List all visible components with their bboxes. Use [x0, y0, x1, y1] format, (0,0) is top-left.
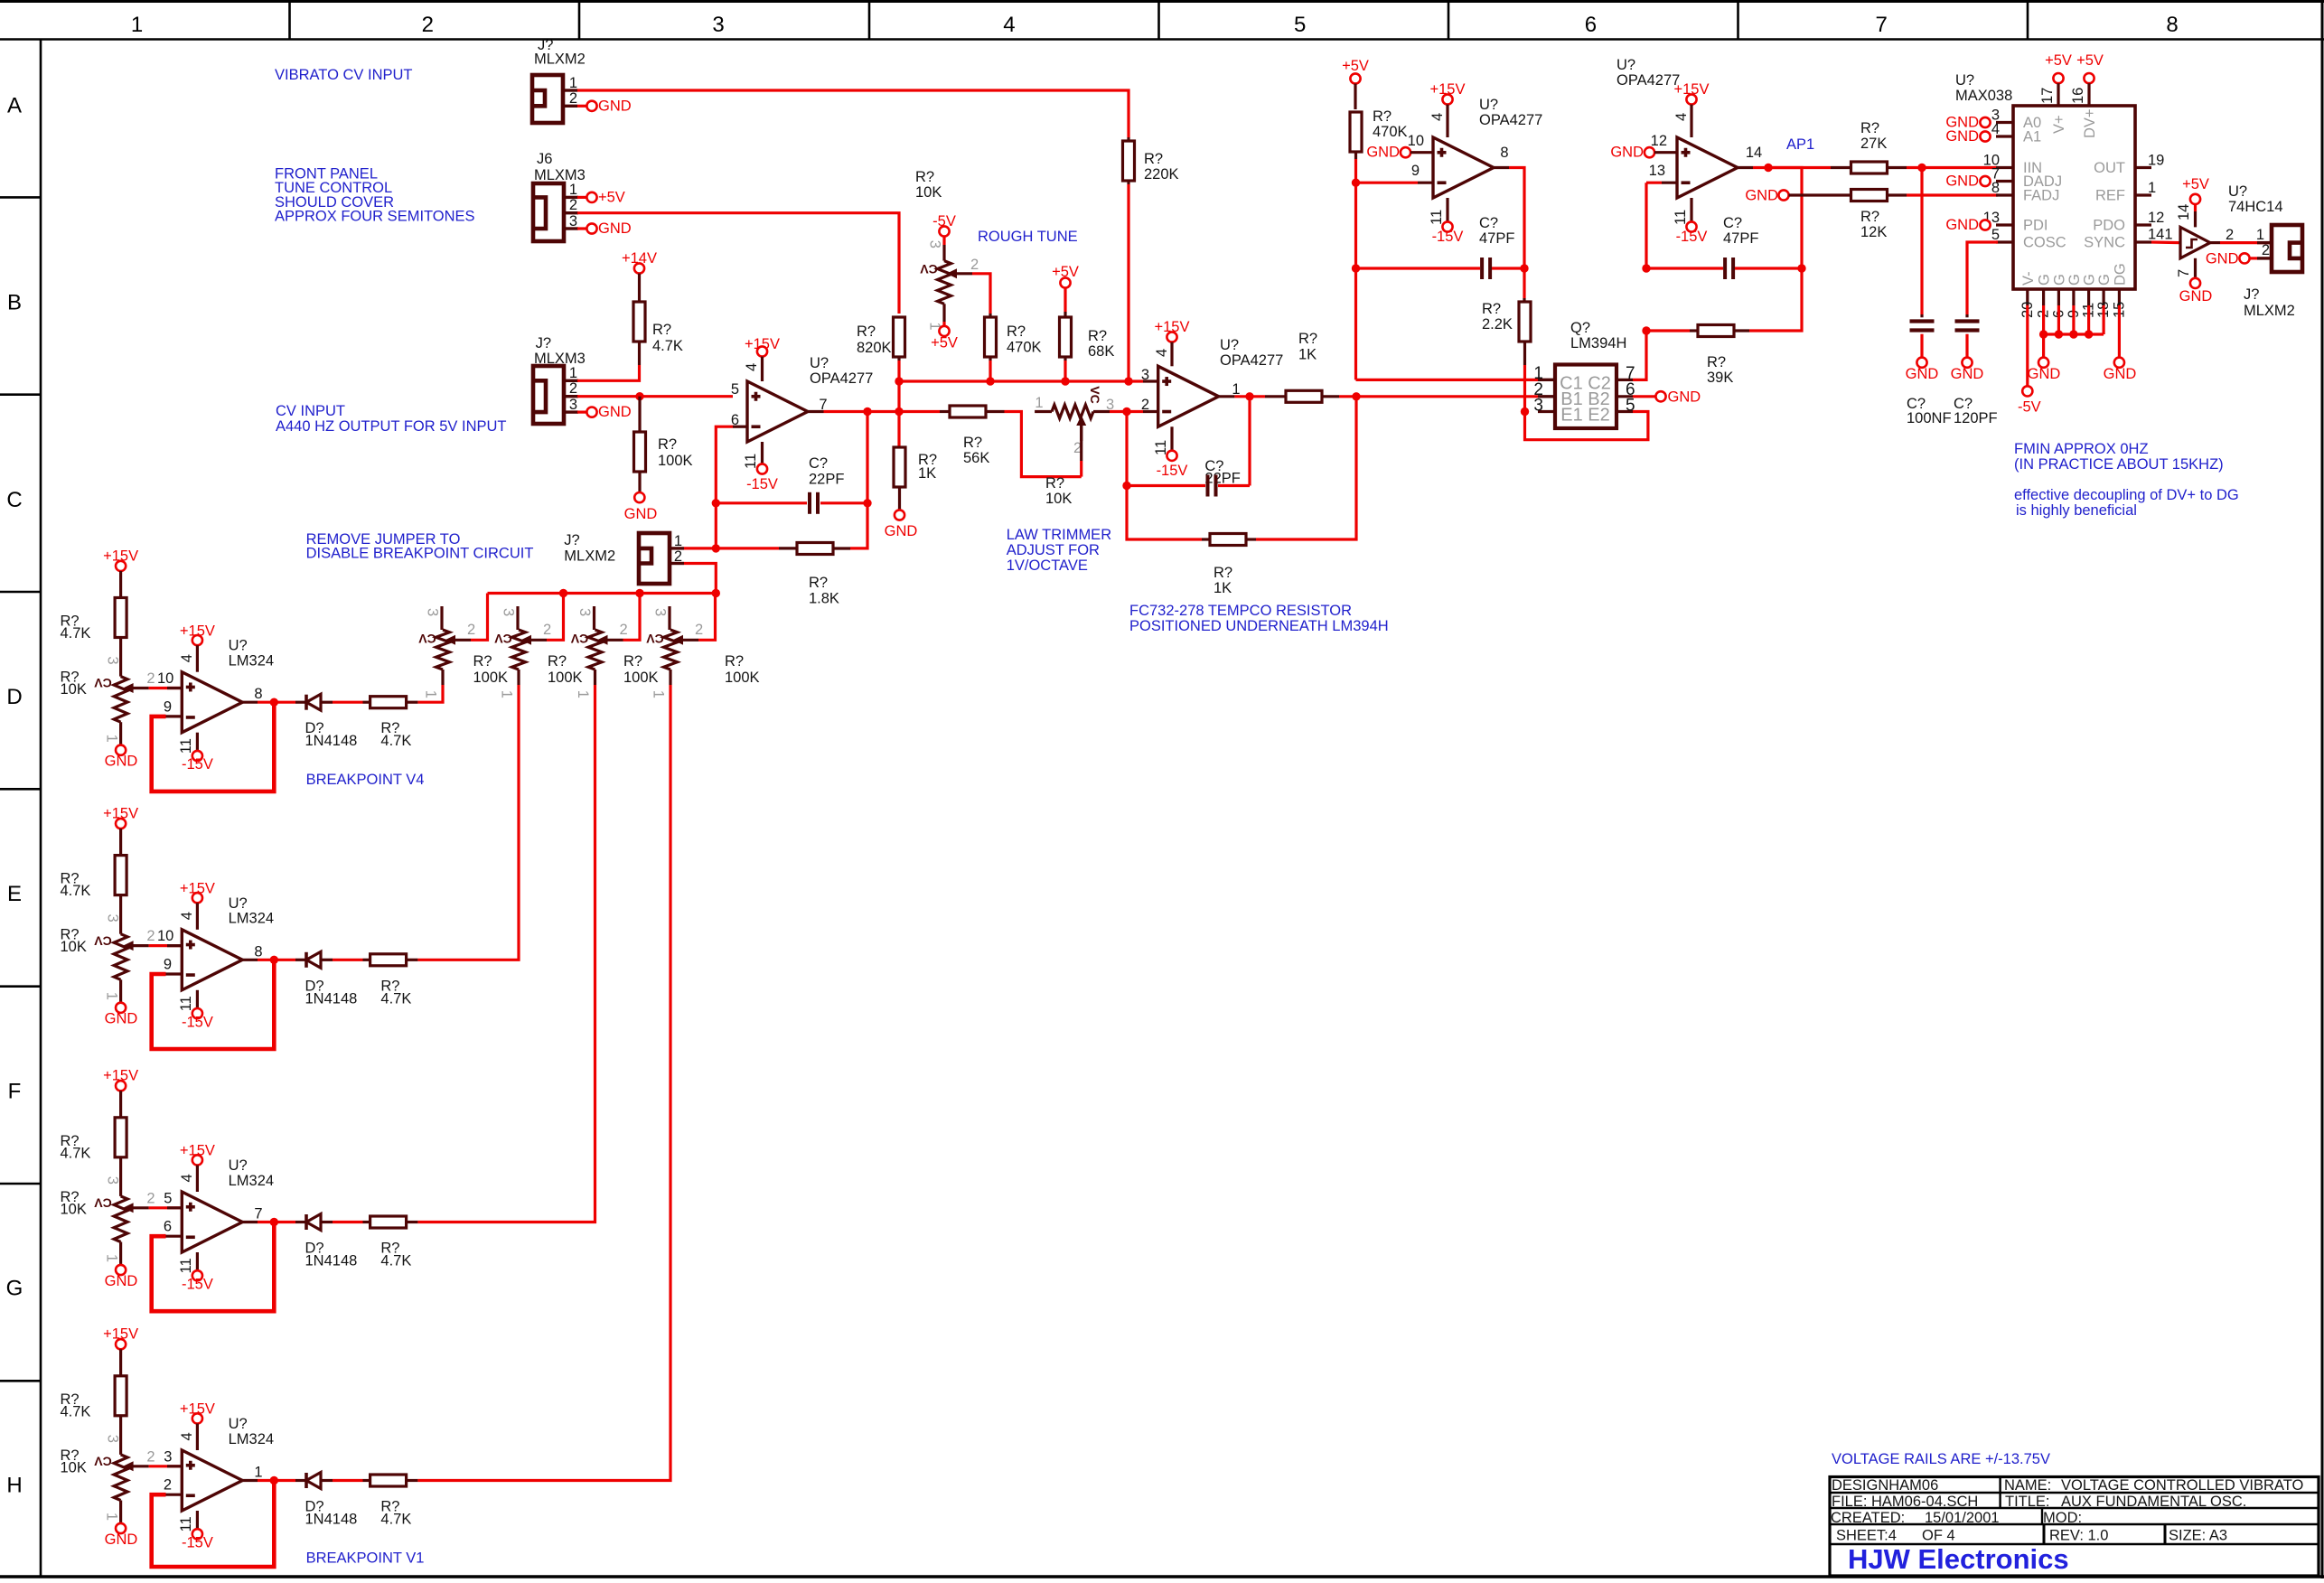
svg-text:1: 1: [674, 533, 682, 549]
svg-text:4: 4: [179, 654, 195, 662]
svg-text:2: 2: [2226, 227, 2234, 243]
svg-text:11: 11: [743, 454, 759, 469]
svg-text:2: 2: [146, 1448, 155, 1465]
svg-text:8: 8: [1991, 180, 2000, 196]
svg-text:9: 9: [164, 698, 172, 715]
svg-text:U?: U?: [229, 1157, 248, 1174]
svg-text:3: 3: [576, 608, 593, 616]
op output wire block 1: [242, 701, 258, 704]
svg-text:1: 1: [2148, 180, 2156, 196]
svg-text:74HC14: 74HC14: [2228, 199, 2283, 215]
svg-text:GND: GND: [2179, 288, 2213, 304]
svg-text:R?: R?: [623, 653, 642, 670]
svg-text:-5V: -5V: [2018, 399, 2041, 416]
svg-text:4.7K: 4.7K: [652, 338, 683, 354]
op-amp U? LM324 block 1: [182, 672, 242, 733]
svg-text:27K: 27K: [1860, 136, 1887, 152]
svg-text:2: 2: [1141, 397, 1149, 413]
svg-text:A1: A1: [2023, 129, 2041, 145]
ground J6 pin3: [577, 227, 586, 229]
feedback loop block 1: [152, 702, 275, 791]
svg-text:1K: 1K: [1298, 347, 1317, 363]
svg-text:+5V: +5V: [2076, 52, 2104, 69]
svg-text:17: 17: [2039, 88, 2056, 104]
svg-text:AP1: AP1: [1786, 136, 1814, 153]
svg-text:GND: GND: [1945, 173, 1979, 190]
svg-text:-15V: -15V: [182, 1277, 213, 1293]
svg-text:56K: 56K: [963, 450, 989, 466]
svg-text:OPA4277: OPA4277: [1479, 112, 1542, 128]
svg-text:8: 8: [1500, 145, 1508, 161]
svg-text:7: 7: [1876, 13, 1888, 37]
svg-text:GND: GND: [1745, 188, 1778, 204]
op-amp U? LM324 block 4: [182, 1450, 242, 1511]
svg-text:R?: R?: [652, 322, 671, 338]
svg-text:CV: CV: [94, 1196, 112, 1211]
svg-text:1: 1: [104, 1513, 120, 1521]
svg-text:LAW TRIMMER: LAW TRIMMER: [1007, 527, 1112, 543]
svg-text:FADJ: FADJ: [2023, 188, 2059, 204]
wire op3 output to R1K: [1219, 395, 1235, 398]
ground pot block 3: [119, 1242, 122, 1265]
wire pot 1 bottom: [441, 670, 444, 685]
svg-text:SYNC: SYNC: [2084, 235, 2125, 251]
svg-text:CV INPUT: CV INPUT: [276, 403, 345, 419]
svg-text:VIBRATO CV INPUT: VIBRATO CV INPUT: [275, 67, 413, 83]
wire op1 inverting input loop: [733, 426, 747, 428]
svg-text:REF: REF: [2095, 188, 2125, 204]
potentiometer R? 10K block 3: [114, 1196, 127, 1242]
svg-text:13: 13: [1649, 163, 1665, 179]
breakpoint wiper bus: [488, 592, 717, 595]
svg-text:11: 11: [1153, 440, 1169, 455]
svg-text:APPROX FOUR SEMITONES: APPROX FOUR SEMITONES: [275, 209, 475, 225]
svg-text:2: 2: [146, 1190, 155, 1206]
svg-text:2: 2: [164, 1477, 172, 1494]
svg-text:G: G: [2082, 274, 2098, 286]
svg-text:2: 2: [569, 197, 577, 213]
svg-text:R?: R?: [1007, 323, 1026, 340]
svg-text:2: 2: [970, 257, 979, 273]
svg-text:1N4148: 1N4148: [305, 1253, 358, 1269]
svg-text:R?: R?: [809, 575, 828, 591]
svg-text:2.2K: 2.2K: [1482, 316, 1513, 333]
svg-text:SIZE: A3: SIZE: A3: [2169, 1528, 2227, 1544]
wire J6 pin2 to R820K: [577, 213, 899, 314]
svg-text:-15V: -15V: [182, 1014, 213, 1030]
wire cap right to output: [1768, 168, 1802, 269]
power -15V op block 4: [196, 1511, 199, 1529]
svg-text:MOD:: MOD:: [2043, 1510, 2082, 1526]
wire cap to output node: [866, 412, 868, 503]
wire LM394H emitters loop: [1525, 412, 1648, 440]
svg-text:2: 2: [543, 622, 551, 638]
svg-text:DG: DG: [2112, 263, 2128, 286]
svg-text:ADJUST FOR: ADJUST FOR: [1007, 542, 1100, 558]
svg-text:3: 3: [1141, 367, 1149, 383]
resistor R? 4.7K output block 4: [333, 1479, 363, 1482]
svg-text:DESIGNHAM06: DESIGNHAM06: [1832, 1477, 1938, 1494]
svg-text:9: 9: [164, 957, 172, 973]
op-amp U? LM324 block 3: [182, 1192, 242, 1252]
svg-text:U?: U?: [810, 355, 829, 371]
svg-text:820K: 820K: [857, 340, 892, 356]
ground pot block 1: [119, 722, 122, 745]
MAX pin 3 A0: [1996, 121, 2013, 124]
svg-text:OPA4277: OPA4277: [1616, 72, 1680, 89]
svg-text:R?: R?: [1088, 328, 1107, 344]
svg-text:CV: CV: [920, 262, 938, 276]
svg-text:1: 1: [499, 690, 515, 698]
svg-text:is highly beneficial: is highly beneficial: [2016, 502, 2137, 519]
op-amp U? LM324 block 2: [182, 930, 242, 990]
svg-text:10K: 10K: [61, 1201, 87, 1217]
resistor R? 12K: [1851, 190, 1888, 201]
MAX pin 1 REF: [2135, 193, 2151, 196]
svg-text:R?: R?: [1482, 301, 1501, 317]
svg-text:CV: CV: [94, 933, 112, 948]
op-amp U? OPA4277 integrator: [1433, 137, 1494, 198]
ground R100K: [634, 492, 644, 502]
svg-text:7: 7: [2176, 269, 2192, 277]
svg-text:+5V: +5V: [2182, 176, 2209, 192]
svg-text:3: 3: [105, 914, 121, 923]
svg-text:LM324: LM324: [229, 911, 274, 927]
diode D? 1N4148 block 4: [295, 1479, 306, 1482]
feedback loop block 2: [152, 960, 275, 1049]
svg-text:GND: GND: [598, 220, 632, 237]
svg-text:8: 8: [254, 943, 262, 960]
law trimmer wiper: [1076, 416, 1086, 426]
svg-text:R?: R?: [1214, 565, 1232, 581]
svg-text:SHEET:4: SHEET:4: [1836, 1528, 1897, 1544]
svg-text:11: 11: [1673, 210, 1689, 225]
svg-text:100K: 100K: [548, 670, 583, 686]
MAX pin 12 PDO: [2135, 223, 2151, 226]
svg-text:-15V: -15V: [1432, 229, 1464, 245]
MAX pin 8 FADJ: [1996, 193, 2013, 196]
svg-text:3: 3: [927, 240, 943, 248]
svg-text:VOLTAGE RAILS ARE +/-13.75V: VOLTAGE RAILS ARE +/-13.75V: [1832, 1451, 2050, 1467]
svg-text:GND: GND: [2104, 366, 2137, 382]
svg-text:4: 4: [1991, 121, 2000, 137]
svg-text:C?: C?: [1723, 215, 1742, 231]
wire jumper pin2 to breakpoint bus: [684, 564, 716, 594]
svg-text:1K: 1K: [918, 465, 936, 482]
svg-text:11: 11: [1429, 210, 1445, 225]
wire jumper pin1 net: [684, 547, 779, 549]
potentiometer R? 100K breakpoint 2: [516, 606, 519, 630]
power -5V MAX V-: [2026, 305, 2029, 386]
resistor R? 1K feedback: [1127, 486, 1202, 540]
svg-text:PDI: PDI: [2023, 218, 2048, 234]
svg-text:LM324: LM324: [229, 1173, 274, 1189]
wire op2 pin9: [1356, 182, 1419, 184]
svg-text:1N4148: 1N4148: [305, 990, 358, 1007]
svg-text:-15V: -15V: [1157, 463, 1188, 479]
svg-text:U?: U?: [229, 895, 248, 912]
svg-text:U?: U?: [2228, 183, 2247, 200]
svg-text:(IN PRACTICE ABOUT 15KHZ): (IN PRACTICE ABOUT 15KHZ): [2014, 456, 2224, 473]
potentiometer R? 10K rough tune: [942, 237, 945, 245]
MAX pin 13 PDI: [1996, 223, 2013, 226]
svg-text:100NF: 100NF: [1907, 410, 1952, 426]
wiper wire pot 4: [673, 635, 684, 645]
svg-text:12K: 12K: [1860, 224, 1887, 240]
MAX bottom pins: [2026, 289, 2029, 305]
svg-text:R?: R?: [725, 653, 744, 670]
svg-text:1: 1: [569, 365, 577, 381]
resistor R? 4.7K input: [638, 274, 641, 302]
svg-text:1K: 1K: [1214, 580, 1232, 596]
svg-text:1: 1: [1035, 395, 1043, 411]
diode D? 1N4148 block 1: [295, 701, 306, 704]
svg-text:2: 2: [2262, 242, 2270, 258]
svg-text:10K: 10K: [61, 939, 87, 955]
svg-text:6: 6: [164, 1219, 172, 1235]
power -15V op block 3: [196, 1252, 199, 1270]
svg-text:1: 1: [423, 690, 439, 698]
svg-text:2: 2: [695, 622, 703, 638]
svg-text:19: 19: [2148, 153, 2164, 169]
feedback loop block 4: [152, 1481, 275, 1568]
svg-text:C?: C?: [1479, 215, 1498, 231]
svg-text:1: 1: [104, 992, 120, 1000]
potentiometer R? 100K breakpoint 1: [440, 606, 443, 630]
svg-text:HJW Electronics: HJW Electronics: [1848, 1543, 2069, 1575]
svg-text:3: 3: [652, 608, 669, 616]
svg-text:3: 3: [569, 213, 577, 229]
wire pot 2 bottom: [517, 670, 520, 685]
svg-text:22PF: 22PF: [809, 472, 844, 488]
svg-text:4.7K: 4.7K: [380, 1512, 411, 1528]
ground pot block 2: [119, 979, 122, 1002]
wiper wire to op-amp block 1: [123, 683, 134, 693]
ground gate pin7: [2194, 258, 2197, 278]
wire op4 output: [1738, 166, 1753, 169]
svg-text:ROUGH TUNE: ROUGH TUNE: [978, 229, 1078, 245]
svg-text:4: 4: [1429, 113, 1446, 121]
svg-text:5: 5: [731, 381, 739, 398]
border frame: [0, 0, 2324, 3]
resistor R? 1K to ground: [894, 447, 905, 487]
wiper wire pot 3: [597, 635, 608, 645]
svg-text:MLXM2: MLXM2: [534, 52, 586, 68]
svg-text:GND: GND: [598, 98, 632, 115]
MAX pin 7 DADJ: [1996, 180, 2013, 183]
svg-text:J?: J?: [536, 335, 551, 351]
svg-text:3: 3: [569, 397, 577, 413]
svg-text:3: 3: [1533, 397, 1543, 416]
MAX pin 10 IIN: [1996, 166, 2013, 169]
svg-text:R?: R?: [1144, 151, 1163, 167]
svg-text:2: 2: [146, 670, 155, 687]
svg-text:+5V: +5V: [598, 190, 625, 206]
svg-text:10: 10: [157, 928, 173, 944]
svg-text:10: 10: [1408, 133, 1424, 149]
svg-text:C?: C?: [809, 455, 828, 472]
svg-text:12: 12: [2148, 210, 2164, 226]
svg-text:16: 16: [2070, 88, 2086, 104]
svg-text:11: 11: [178, 996, 194, 1011]
op output wire block 2: [242, 959, 258, 961]
svg-text:8: 8: [2166, 13, 2178, 37]
svg-text:10: 10: [157, 670, 173, 687]
wiper wire to op-amp block 4: [123, 1461, 134, 1471]
wire CV pin2 to op-amp U? pin5: [577, 395, 733, 398]
svg-text:U?: U?: [229, 1416, 248, 1432]
svg-text:2: 2: [422, 13, 434, 37]
svg-text:470K: 470K: [1007, 340, 1042, 356]
wiper wire to op-amp block 2: [123, 941, 134, 951]
svg-text:120PF: 120PF: [1954, 410, 1998, 426]
svg-text:R?: R?: [1045, 475, 1064, 492]
MAX pin 14 SYNC: [2135, 240, 2151, 243]
svg-text:11: 11: [178, 1516, 194, 1531]
svg-text:10K: 10K: [61, 1459, 87, 1475]
svg-text:10K: 10K: [61, 681, 87, 698]
svg-text:R?: R?: [857, 323, 876, 340]
wiper wire pot 2: [521, 635, 532, 645]
svg-text:MAX038: MAX038: [1955, 88, 2012, 104]
svg-text:100K: 100K: [473, 670, 509, 686]
svg-text:+5V: +5V: [2045, 52, 2072, 69]
wire SYNC to gate: [2151, 240, 2180, 244]
svg-text:3: 3: [425, 608, 441, 616]
wire op4 pin13: [1646, 182, 1662, 184]
svg-text:DV+: DV+: [2082, 108, 2098, 138]
svg-text:CV: CV: [646, 632, 664, 646]
ground 120PF: [1962, 358, 1972, 368]
svg-text:3: 3: [501, 608, 517, 616]
svg-text:11: 11: [178, 738, 194, 754]
wire pot 3 bottom: [594, 670, 596, 685]
svg-text:H: H: [6, 1474, 22, 1498]
svg-text:2: 2: [569, 380, 577, 397]
svg-text:R?: R?: [963, 435, 982, 451]
svg-text:4: 4: [744, 363, 760, 371]
svg-text:5: 5: [1294, 13, 1306, 37]
svg-text:7: 7: [254, 1206, 262, 1222]
wire op2 output: [1494, 166, 1509, 169]
svg-text:MLXM2: MLXM2: [2244, 303, 2295, 319]
svg-text:+5V: +5V: [931, 335, 958, 351]
MAX ground bus: [2042, 305, 2045, 358]
svg-text:2: 2: [620, 622, 628, 638]
svg-text:4.7K: 4.7K: [380, 733, 411, 749]
svg-text:B: B: [7, 291, 22, 315]
svg-text:GND: GND: [624, 506, 658, 522]
svg-text:GND: GND: [1945, 128, 1979, 145]
svg-text:2: 2: [674, 548, 682, 565]
svg-text:U?: U?: [229, 638, 248, 654]
svg-text:R?: R?: [1860, 209, 1879, 225]
svg-text:U?: U?: [1220, 337, 1239, 353]
wire pot 4 bottom: [669, 670, 671, 685]
resistor R? 4.7K block 1: [119, 571, 122, 598]
svg-text:1: 1: [104, 1254, 120, 1262]
resistor R? 4.7K output block 1: [333, 701, 363, 704]
potentiometer R? 10K block 1: [114, 677, 127, 723]
svg-text:2: 2: [467, 622, 475, 638]
svg-text:4: 4: [179, 912, 195, 920]
svg-text:14: 14: [1746, 145, 1762, 161]
svg-text:FC732-278 TEMPCO RESISTOR: FC732-278 TEMPCO RESISTOR: [1129, 603, 1352, 619]
svg-text:4.7K: 4.7K: [380, 990, 411, 1007]
svg-text:15/01/2001: 15/01/2001: [1925, 1510, 2000, 1526]
resistor R? 4.7K block 3: [119, 1091, 122, 1118]
svg-text:CV: CV: [570, 632, 588, 646]
wire gate output: [2210, 241, 2220, 244]
svg-text:DISABLE BREAKPOINT CIRCUIT: DISABLE BREAKPOINT CIRCUIT: [306, 546, 534, 562]
svg-text:R?: R?: [473, 653, 492, 670]
svg-text:BREAKPOINT V4: BREAKPOINT V4: [306, 772, 425, 788]
wiper rough tune to R470K: [947, 268, 958, 278]
svg-text:R?: R?: [1707, 354, 1726, 370]
resistor R? 220K: [1127, 137, 1129, 141]
op-amp U? OPA4277 right: [1677, 137, 1738, 198]
wire law trimmer pin3 to op3 inverting: [1093, 410, 1110, 413]
svg-text:100K: 100K: [725, 670, 760, 686]
svg-text:GND: GND: [2206, 250, 2239, 267]
feedback loop block 3: [152, 1222, 275, 1312]
svg-text:4: 4: [1154, 349, 1170, 357]
diode D? 1N4148 block 2: [295, 959, 306, 961]
svg-text:E1 E2: E1 E2: [1560, 405, 1609, 425]
svg-text:4: 4: [1673, 113, 1690, 121]
svg-text:GND: GND: [1610, 145, 1644, 161]
svg-text:R?: R?: [1298, 331, 1317, 347]
svg-text:3: 3: [712, 13, 724, 37]
svg-text:1: 1: [569, 75, 577, 91]
resistor R? 4.7K block 4: [119, 1349, 122, 1376]
svg-text:3: 3: [164, 1448, 172, 1465]
svg-text:-15V: -15V: [1676, 229, 1708, 245]
svg-text:OF 4: OF 4: [1922, 1528, 1955, 1544]
svg-text:470K: 470K: [1373, 124, 1408, 140]
svg-text:TITLE:: TITLE:: [2005, 1494, 2050, 1510]
svg-text:R?: R?: [915, 169, 934, 185]
svg-text:3: 3: [105, 1176, 121, 1185]
svg-text:1.8K: 1.8K: [809, 591, 839, 607]
svg-text:2: 2: [146, 928, 155, 944]
ground pot block 4: [119, 1501, 122, 1523]
svg-text:V-: V-: [2020, 271, 2037, 286]
svg-text:1: 1: [575, 690, 591, 698]
resistor R? 470K rough tune: [989, 314, 991, 317]
svg-text:COSC: COSC: [2023, 235, 2066, 251]
svg-text:4.7K: 4.7K: [380, 1253, 411, 1269]
svg-text:GND: GND: [105, 1531, 138, 1548]
svg-text:effective decoupling of DV+ to: effective decoupling of DV+ to DG: [2014, 487, 2239, 503]
svg-text:4: 4: [179, 1432, 195, 1440]
wire R56K to law trimmer wiper: [1005, 412, 1082, 477]
svg-text:Q?: Q?: [1570, 320, 1590, 336]
svg-text:CV: CV: [94, 676, 112, 690]
svg-text:U?: U?: [1955, 72, 1974, 89]
svg-text:47PF: 47PF: [1723, 230, 1758, 247]
ground 100NF: [1916, 358, 1926, 368]
svg-text:GND: GND: [105, 1273, 138, 1289]
svg-text:5: 5: [164, 1190, 172, 1206]
wire op1 output: [809, 410, 824, 413]
op-amp U? OPA4277 expo: [1158, 366, 1219, 426]
svg-text:F: F: [8, 1079, 22, 1103]
svg-text:MLXM2: MLXM2: [564, 548, 615, 565]
power -15V op1: [761, 442, 764, 464]
potentiometer R? 100K breakpoint 3: [593, 606, 595, 630]
svg-text:6: 6: [1585, 13, 1597, 37]
